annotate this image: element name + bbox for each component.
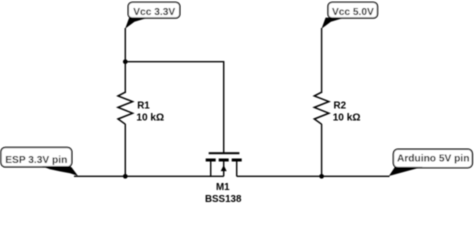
resistor R2 <box>314 92 329 176</box>
wire Vcc3.3 flag to junction <box>124 28 126 62</box>
gate plate <box>209 152 240 154</box>
resistor R2 zigzag <box>314 92 329 124</box>
svg-text:10 kΩ: 10 kΩ <box>136 113 164 124</box>
node junction B (R1/ESP rail) <box>123 174 128 179</box>
channel bar drain <box>232 159 242 162</box>
wire Vcc5.0 flag to R2 <box>321 28 323 93</box>
node junction A (Vcc3.3/R1/gate) <box>123 59 128 64</box>
wire R2 bottom lead <box>321 124 323 176</box>
wire gate horizontal <box>125 62 223 153</box>
drain stem <box>236 161 238 176</box>
svg-text:10 kΩ: 10 kΩ <box>333 113 361 124</box>
net flag ESP 3.3V pin <box>1 147 78 176</box>
wire R1 bottom lead <box>124 124 126 176</box>
wire R1 top lead <box>124 62 126 93</box>
svg-text:ESP 3.3V pin: ESP 3.3V pin <box>5 155 67 166</box>
svg-text:M1: M1 <box>216 182 230 193</box>
svg-text:R2: R2 <box>334 100 347 111</box>
svg-text:Vcc 5.0V: Vcc 5.0V <box>332 7 374 18</box>
channel bar source <box>206 159 216 162</box>
node junction C (R2/Arduino rail) <box>319 174 324 179</box>
resistor R1 zigzag <box>118 92 133 124</box>
body stem <box>223 161 225 176</box>
net flag Vcc 5.0V <box>322 2 378 28</box>
svg-text:BSS138: BSS138 <box>205 194 242 204</box>
wire ESP rail (source side) <box>74 175 224 177</box>
net flag Arduino 5V pin <box>389 149 473 176</box>
net flag Vcc 3.3V <box>125 2 180 28</box>
svg-text:Arduino 5V pin: Arduino 5V pin <box>397 154 469 165</box>
source stem <box>210 161 212 176</box>
resistor R1 <box>118 62 133 177</box>
svg-text:R1: R1 <box>137 100 150 111</box>
channel bar body <box>219 159 229 162</box>
body arrow <box>221 165 227 171</box>
wire Arduino rail (drain side) <box>237 175 390 177</box>
transistor M1 BSS138 <box>206 152 242 176</box>
svg-text:Vcc 3.3V: Vcc 3.3V <box>133 7 175 18</box>
